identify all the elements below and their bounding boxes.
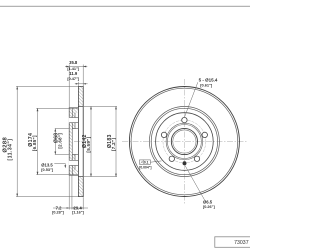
svg-text:[0.47"]: [0.47"] <box>67 77 79 81</box>
svg-text:[0.53"]: [0.53"] <box>41 168 53 172</box>
svg-text:[5.59"]: [5.59"] <box>86 136 91 152</box>
svg-text:0.1: 0.1 <box>144 161 149 165</box>
svg-text:[7.2"]: [7.2"] <box>111 138 116 151</box>
svg-text:[0.61"]: [0.61"] <box>200 83 213 88</box>
svg-text:[11.34"]: [11.34"] <box>8 139 14 161</box>
svg-text:11.9: 11.9 <box>69 71 78 76</box>
svg-text:[1.16"]: [1.16"] <box>72 210 84 214</box>
svg-text:[0.26"]: [0.26"] <box>203 205 215 209</box>
svg-text:↗: ↗ <box>140 161 143 165</box>
svg-text:[2.68"]: [2.68"] <box>58 133 63 149</box>
svg-text:[6.85"]: [6.85"] <box>32 135 37 151</box>
svg-text:73037: 73037 <box>234 240 249 246</box>
svg-text:Ø6.5: Ø6.5 <box>203 200 213 205</box>
svg-text:[0.004"]: [0.004"] <box>139 165 151 169</box>
svg-text:35.8: 35.8 <box>69 60 78 65</box>
svg-text:Ø13.5: Ø13.5 <box>41 162 53 167</box>
svg-text:[0.28"]: [0.28"] <box>52 210 64 214</box>
